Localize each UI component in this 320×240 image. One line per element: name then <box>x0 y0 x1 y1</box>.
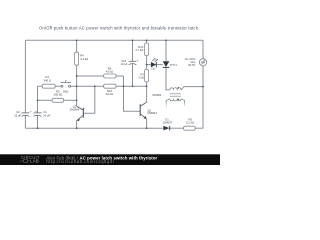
svg-text:LAB: LAB <box>30 159 39 164</box>
svg-text:SW1: SW1 <box>63 90 69 94</box>
transformer phase dots <box>178 87 180 89</box>
resistor R7 <box>138 69 148 82</box>
LED D2 <box>151 58 158 70</box>
wire R4 bottom to Q1 <box>76 65 78 106</box>
svg-text:1N4007: 1N4007 <box>163 120 173 124</box>
svg-text:2N3904: 2N3904 <box>70 107 80 111</box>
resistor R6 <box>104 67 116 78</box>
wire R16 right to Q2 collector line <box>116 85 147 87</box>
svg-text:1 kΩ: 1 kΩ <box>138 76 144 80</box>
svg-text:150 kΩ: 150 kΩ <box>54 93 63 97</box>
wire top rail <box>25 39 203 41</box>
resistor R4 <box>75 52 89 65</box>
resistor R1 <box>42 75 55 88</box>
transistor Q2 <box>140 102 146 119</box>
svg-text:42 kΩ: 42 kΩ <box>106 92 113 96</box>
resistor R16 <box>104 84 116 96</box>
transformer XFMR1 <box>166 88 184 104</box>
svg-text:+: + <box>137 58 139 62</box>
wire R1 branch <box>38 85 43 87</box>
junction dots <box>37 39 204 129</box>
wire Q1 base riser <box>83 86 94 113</box>
wire right rail upper <box>202 40 204 58</box>
svg-text:42 kΩ: 42 kΩ <box>106 70 113 74</box>
transformer fading secondary stubs <box>165 104 167 107</box>
wire R2 branch <box>38 99 53 101</box>
wire Q2 emitter down <box>146 119 148 128</box>
wire thyristor anode <box>165 40 167 61</box>
svg-text:5.1 kΩ: 5.1 kΩ <box>186 120 194 124</box>
resistor R10 <box>135 43 148 56</box>
resistor R2 <box>52 90 64 103</box>
svg-text:+: + <box>30 110 32 114</box>
wire R6 corner down to Q2 base <box>124 76 141 111</box>
svg-text:60 Hz: 60 Hz <box>188 63 196 67</box>
wire R6 branch <box>77 75 104 77</box>
wire left rail upper <box>24 40 26 112</box>
svg-text:http://circuitlab.com/c2q5q3/: http://circuitlab.com/c2q5q3/ <box>46 159 114 164</box>
svg-text:10 µF: 10 µF <box>43 114 50 118</box>
svg-text:3.3 kΩ: 3.3 kΩ <box>80 57 88 61</box>
thyristor THY1 <box>163 61 178 67</box>
wire button to node <box>71 85 104 87</box>
svg-text:10 µF: 10 µF <box>14 114 21 118</box>
resistor R5 <box>184 117 196 130</box>
wire right rail lower <box>202 66 204 128</box>
capacitor C10 <box>121 58 139 66</box>
capacitor C1 <box>34 109 51 118</box>
svg-text:540 Ω: 540 Ω <box>44 78 51 82</box>
svg-text:+: + <box>35 109 37 113</box>
wire thyristor cathode to transformer <box>166 68 170 90</box>
wire R10 R7 vertical <box>146 40 148 43</box>
svg-text:2N3904: 2N3904 <box>147 111 157 115</box>
wire Q1 emitter down <box>76 121 78 129</box>
wire transformer top right lead to right rail <box>181 87 203 90</box>
diode D1 <box>163 117 173 130</box>
capacitor C2 <box>14 110 32 118</box>
svg-text:D2: D2 <box>152 67 156 71</box>
AC source V1 <box>185 57 207 67</box>
svg-text:THY1: THY1 <box>170 63 177 67</box>
wire C1 branch vertical <box>37 86 39 113</box>
wire bottom rail <box>25 127 163 129</box>
wire left rail lower <box>24 115 26 128</box>
footer bar <box>0 154 220 165</box>
wire C10 vertical <box>132 40 134 61</box>
wire LED branch <box>147 64 151 66</box>
push button SW1 <box>61 80 71 87</box>
svg-text:10 µF: 10 µF <box>121 62 128 66</box>
wire R4 vertical top <box>76 40 78 52</box>
svg-text:XFMR1: XFMR1 <box>152 93 162 97</box>
transistor Q1 <box>77 106 84 121</box>
svg-text:On/Off push button AC power sw: On/Off push button AC power switch with … <box>39 25 200 30</box>
svg-text:4.7 kΩ: 4.7 kΩ <box>135 48 143 52</box>
